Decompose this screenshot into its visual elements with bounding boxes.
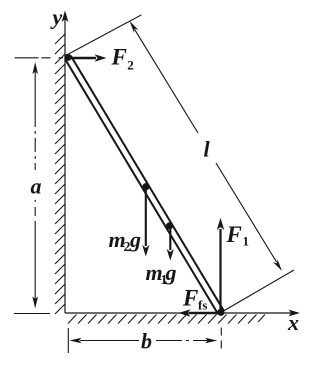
force m1g arrow [167,228,174,261]
ladder (rod) [65,56,224,314]
friction force Ffs arrow [179,309,219,316]
floor hatching [68,315,265,324]
dimension a: vertical line with arrows [32,62,38,309]
svg-text:g: g [165,260,177,285]
svg-text:fs: fs [198,298,207,313]
force F1 arrow [217,218,224,311]
dimension l: bottom extension line [224,270,295,311]
y-axis [62,11,69,314]
svg-text:l: l [204,137,211,162]
svg-text:b: b [141,329,152,354]
dimension b: left extension line [67,328,69,353]
svg-text:a: a [31,174,42,199]
x-axis [65,310,300,317]
dimension l: top extension line [69,15,142,54]
svg-text:F: F [111,45,127,70]
dimension b: right extension line (dashed) [220,328,222,354]
dimension a: bottom extension line [14,313,50,315]
ladder base end blob [217,309,224,316]
svg-text:g: g [129,227,141,252]
dimension a: top extension line (dashed) [15,57,64,59]
ladder top end blob [64,54,71,61]
pivot dot lower (m1 attachment) [166,222,173,229]
svg-text:2: 2 [127,58,134,73]
dimension l: line with arrows [130,21,283,271]
dimension b: horizontal line with arrows [70,338,218,344]
svg-text:x: x [287,310,299,335]
pivot dot upper (m2 attachment) [142,183,149,190]
wall hatching [55,34,65,314]
svg-text:1: 1 [243,234,250,249]
force F2 arrow [69,54,107,61]
force m2g arrow [142,188,149,257]
svg-text:F: F [182,286,198,311]
svg-text:F: F [226,222,242,247]
